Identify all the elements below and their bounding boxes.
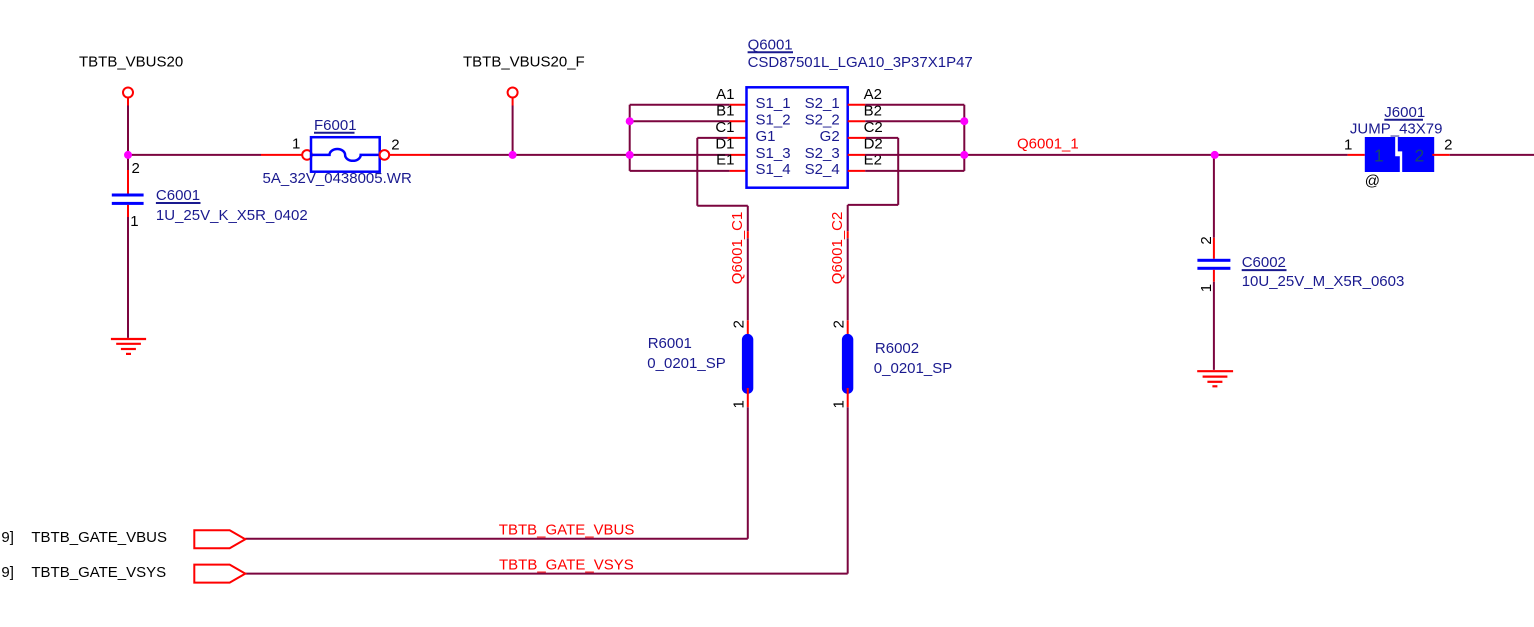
wire down to R6002 upper <box>847 205 849 231</box>
svg-text:1: 1 <box>731 400 748 408</box>
svg-text:5A_32V_0438005.WR: 5A_32V_0438005.WR <box>263 170 412 187</box>
svg-text:C6002: C6002 <box>1242 254 1286 271</box>
port circle TBTB_VBUS20_F <box>508 88 518 98</box>
pin stub E2 <box>848 170 866 172</box>
svg-text:S2_2: S2_2 <box>805 112 840 129</box>
capacitor C6001 plates <box>112 194 144 197</box>
svg-text:TBTB_VBUS20_F: TBTB_VBUS20_F <box>463 54 585 71</box>
pin stub R6002 pin 1 <box>847 388 849 407</box>
off-page connector TBTB_GATE_VBUS <box>194 530 245 548</box>
svg-text:G1: G1 <box>756 128 776 145</box>
svg-text:2: 2 <box>831 320 848 328</box>
svg-text:S2_3: S2_3 <box>805 145 840 162</box>
svg-text:Q6001: Q6001 <box>748 36 793 53</box>
svg-text:1: 1 <box>1198 284 1215 292</box>
svg-text:B1: B1 <box>716 102 734 119</box>
wire down to R6002 <box>847 238 849 320</box>
pin stub red below port circle F <box>512 98 514 106</box>
pin stub R6001 pin 2 <box>747 320 749 340</box>
right bus vertical wire <box>963 105 965 171</box>
pin stub A1 <box>730 104 747 106</box>
svg-text:2: 2 <box>132 160 140 177</box>
wire red segment after fuse pin 2 <box>389 154 430 156</box>
svg-text:C1: C1 <box>715 119 734 136</box>
junction at C6002 <box>1211 151 1219 159</box>
svg-text:1: 1 <box>292 135 300 152</box>
pin stub R6002 pin 2 <box>847 320 849 340</box>
transistor Q6001 body <box>747 87 848 187</box>
wire right bus to C6002 junction <box>964 154 1347 156</box>
wire vertical F port to main <box>512 106 514 155</box>
fuse F6001 element curve <box>312 149 379 161</box>
junction right bus row D <box>960 151 968 159</box>
wire G1 vertical drop <box>696 138 698 206</box>
svg-text:10U_25V_M_X5R_0603: 10U_25V_M_X5R_0603 <box>1242 273 1405 290</box>
svg-text:1: 1 <box>130 213 138 230</box>
wire junction to C6002 <box>1213 155 1215 238</box>
junction right bus row B <box>960 117 968 125</box>
wire G2 jog left <box>848 204 899 206</box>
svg-text:2: 2 <box>1415 146 1425 166</box>
wire fuse to VBUS20_F junction <box>430 154 513 156</box>
svg-text:E1: E1 <box>716 152 734 169</box>
svg-text:S2_4: S2_4 <box>805 161 840 178</box>
wire R6002 down <box>847 407 849 573</box>
wire C6001 to ground <box>127 217 129 338</box>
svg-text:G2: G2 <box>820 128 840 145</box>
svg-text:R6001: R6001 <box>648 335 692 352</box>
pin stub C2 <box>848 137 866 139</box>
fuse F6001 body <box>311 137 380 172</box>
left bus vertical wire <box>629 105 631 171</box>
svg-text:0_0201_SP: 0_0201_SP <box>874 360 952 377</box>
pin stub red C6001 pin 2 <box>127 170 129 194</box>
svg-text:R6002: R6002 <box>875 340 919 357</box>
pin stub E1 <box>730 170 747 172</box>
wire G1 jog right <box>697 205 748 207</box>
wire G2 horizontal <box>866 137 898 139</box>
svg-text:1U_25V_K_X5R_0402: 1U_25V_K_X5R_0402 <box>156 207 308 224</box>
wire jumper to right edge <box>1450 154 1534 156</box>
wire red tick Q6001_C2 <box>847 231 849 238</box>
pin stub C1 <box>728 137 747 139</box>
svg-text:TBTB_VBUS20: TBTB_VBUS20 <box>79 54 183 71</box>
port circle TBTB_VBUS20 <box>123 88 133 98</box>
wire row D2 <box>865 154 964 156</box>
resistor R6001 body <box>742 334 753 394</box>
svg-text:A1: A1 <box>716 86 734 103</box>
wire G2 vertical drop <box>897 138 899 205</box>
junction at left bus row D <box>626 151 634 159</box>
svg-text:9]: 9] <box>1 529 14 546</box>
junction at left bus row B <box>626 117 634 125</box>
svg-text:Q6001_1: Q6001_1 <box>1017 136 1079 153</box>
pin stub B2 <box>848 120 866 122</box>
pin stub R6001 pin 1 <box>747 388 749 407</box>
pin stub J6001 pin 2 <box>1432 154 1449 156</box>
svg-text:F6001: F6001 <box>314 117 357 134</box>
svg-text:JUMP_43X79: JUMP_43X79 <box>1350 121 1443 138</box>
wire down to R6001 upper <box>747 206 749 231</box>
wire red segment before fuse pin 1 <box>261 154 302 156</box>
wire row E2 <box>865 170 964 172</box>
pin stub J6001 pin 1 <box>1348 154 1365 156</box>
wire R6001 down <box>747 407 749 539</box>
svg-text:S1_1: S1_1 <box>756 95 791 112</box>
pin stub D2 <box>848 154 866 156</box>
svg-text:Q6001_C2: Q6001_C2 <box>829 212 846 285</box>
fuse F6001 pin 2 circle <box>380 150 390 160</box>
ground symbol right <box>1197 371 1233 386</box>
svg-text:TBTB_GATE_VSYS: TBTB_GATE_VSYS <box>499 556 634 573</box>
capacitor C6002 plates <box>1197 259 1230 262</box>
wire row D to Q6001 stub <box>630 154 730 156</box>
off-page connector TBTB_GATE_VSYS <box>194 565 245 583</box>
svg-text:S1_3: S1_3 <box>756 145 791 162</box>
svg-text:2: 2 <box>1198 236 1215 244</box>
wire vertical port to junction <box>127 106 129 155</box>
fuse F6001 pin 1 circle <box>302 150 312 160</box>
wire TBTB_GATE_VBUS horizontal <box>245 538 748 540</box>
svg-text:J6001: J6001 <box>1384 104 1425 121</box>
svg-text:Q6001_C1: Q6001_C1 <box>729 212 746 285</box>
pin stub D1 <box>730 154 747 156</box>
jumper J6001 body <box>1365 137 1434 172</box>
pin stub A2 <box>848 104 866 106</box>
wire row E1 <box>630 170 730 172</box>
wire row B1 <box>630 120 730 122</box>
wire junction to C6001 <box>127 155 129 170</box>
svg-text:TBTB_GATE_VSYS: TBTB_GATE_VSYS <box>31 564 166 581</box>
resistor R6002 body <box>842 334 853 394</box>
svg-text:S1_4: S1_4 <box>756 161 791 178</box>
svg-text:TBTB_GATE_VBUS: TBTB_GATE_VBUS <box>499 522 635 539</box>
ground symbol left <box>111 339 146 354</box>
pin stub C6002 pin 1 <box>1213 270 1215 282</box>
svg-text:1: 1 <box>1374 146 1384 166</box>
junction at VBUS20_F <box>509 151 517 159</box>
jumper J6001 break slot <box>1395 137 1402 172</box>
wire C6002 to ground <box>1213 282 1215 370</box>
pin stub B1 <box>730 120 747 122</box>
svg-text:0_0201_SP: 0_0201_SP <box>647 355 725 372</box>
svg-text:@: @ <box>1365 172 1380 189</box>
pin stub red below port circle <box>127 98 129 106</box>
svg-text:S1_2: S1_2 <box>756 112 791 129</box>
wire TBTB_GATE_VSYS horizontal <box>245 573 847 575</box>
svg-text:C6001: C6001 <box>156 187 200 204</box>
svg-text:1: 1 <box>1344 137 1352 154</box>
wire red tick Q6001_C1 <box>747 231 749 238</box>
wire row B2 <box>865 120 964 122</box>
pin stub C6002 pin 2 <box>1213 238 1215 259</box>
svg-text:1: 1 <box>831 400 848 408</box>
svg-text:2: 2 <box>391 137 399 154</box>
svg-text:A2: A2 <box>864 86 882 103</box>
wire G1 horizontal <box>697 137 727 139</box>
wire to left bus <box>513 154 630 156</box>
pin stub red C6001 pin 1 <box>127 205 129 217</box>
svg-text:2: 2 <box>731 320 748 328</box>
wire row A1 <box>630 104 730 106</box>
wire main horizontal to fuse <box>128 154 261 156</box>
junction at VBUS20 tap <box>124 151 132 159</box>
svg-text:2: 2 <box>1444 137 1452 154</box>
svg-text:TBTB_GATE_VBUS: TBTB_GATE_VBUS <box>31 529 167 546</box>
svg-text:S2_1: S2_1 <box>805 95 840 112</box>
svg-text:9]: 9] <box>1 564 14 581</box>
svg-text:CSD87501L_LGA10_3P37X1P47: CSD87501L_LGA10_3P37X1P47 <box>748 54 973 71</box>
wire row A2 <box>865 104 964 106</box>
wire down to R6001 <box>747 238 749 320</box>
